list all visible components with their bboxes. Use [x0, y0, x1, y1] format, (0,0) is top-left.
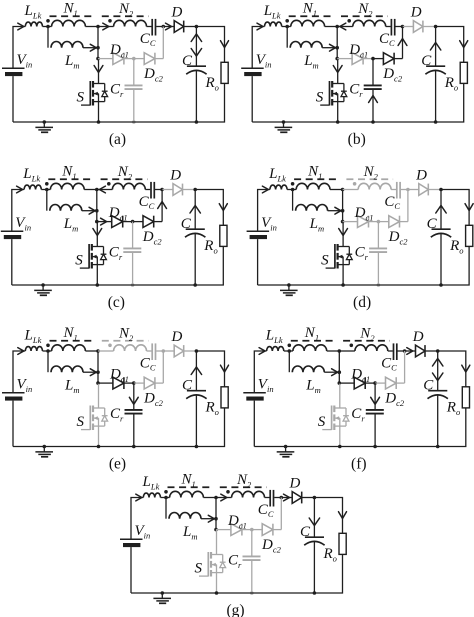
inductor Llk (e): [25, 347, 42, 351]
node B junction (f): [403, 349, 407, 353]
wire: node C to output capacitor C (e): [191, 351, 201, 391]
diode Dc2 (e): [144, 377, 155, 389]
capacitor CC (g): [270, 490, 273, 507]
svg-text:D: D: [410, 5, 422, 21]
capacitor C (polarized) (d): [431, 229, 451, 237]
ground rail (c): [12, 284, 195, 286]
transistor S (MOSFET with body diode) (c): [80, 244, 107, 269]
diode Dc1 (f): [354, 377, 365, 389]
svg-text:N1: N1: [181, 472, 196, 489]
diode Dc1 (e): [113, 377, 124, 389]
ground symbol (a): [35, 120, 53, 132]
wire: node C to output capacitor C (b): [430, 27, 440, 67]
winding N1 (c): [50, 183, 84, 189]
inductor Lm (d): [296, 205, 328, 211]
resistor Ro (a): [221, 62, 228, 83]
label Llk (e): [24, 328, 42, 345]
label C (f): [423, 378, 434, 394]
ground symbol (g): [153, 591, 171, 603]
wire: input top-left segment with current arrow (e): [13, 348, 25, 393]
svg-text:LLk: LLk: [142, 474, 160, 491]
inductor Llk (d): [270, 185, 287, 189]
label Cr (c): [109, 245, 123, 262]
wire: N1 to mid node (b): [325, 26, 338, 28]
label Dc2 (d): [388, 229, 409, 246]
transformer core dashed line over N2 (d): [346, 178, 393, 180]
capacitor CC (d): [397, 182, 400, 199]
svg-text:Lm: Lm: [182, 524, 197, 541]
winding N1 (d): [296, 183, 330, 189]
clamp mid junction (a): [132, 57, 136, 61]
wire: drain node to diode Dc1 (b): [337, 58, 352, 60]
diode Dc2 (f): [386, 377, 397, 389]
clamp mid junction (e): [132, 381, 136, 385]
winding N2 polarity dot (b): [347, 19, 351, 23]
svg-text:CC: CC: [139, 194, 155, 211]
wire: Ro to ground rail (e): [196, 408, 224, 447]
transformer core dashed line over N1 (g): [168, 486, 214, 488]
wire: drain column (d): [339, 222, 348, 247]
label CC (d): [384, 194, 400, 211]
wire: mid node to N2 (b): [337, 23, 353, 30]
wire: drain node to diode Dc1 (e): [98, 382, 113, 384]
node B junction (a): [162, 25, 166, 29]
transistor S (MOSFET with body diode) (e): [81, 406, 108, 431]
wire: node A down to Lm (a): [47, 27, 49, 48]
wire: node B to diode D (g): [281, 494, 292, 501]
svg-text:(f): (f): [351, 456, 367, 473]
winding N2 (a): [114, 20, 147, 26]
label Dc1 (b): [348, 42, 368, 59]
diode Dc2 (d): [389, 216, 400, 228]
battery Vin (e): [2, 393, 25, 401]
svg-text:Ro: Ro: [323, 546, 337, 563]
svg-text:Dc1: Dc1: [227, 513, 247, 530]
wire: Llk to node A (f): [284, 350, 293, 352]
diode Dc1 (a): [113, 53, 124, 65]
wire: diode D to node C (a): [184, 26, 197, 28]
wire: diode D to node C (c): [183, 189, 196, 191]
wire: Lm to mid node with arrow (c): [82, 207, 97, 214]
label N1 (e): [63, 325, 78, 342]
wire: node A down to Lm (d): [292, 190, 294, 211]
node C junction (e): [195, 349, 199, 353]
svg-text:N1: N1: [304, 325, 319, 342]
node B junction (c): [160, 188, 164, 192]
svg-text:D: D: [169, 168, 181, 184]
wire: N2 to capacitor CC (a): [147, 26, 152, 28]
transformer core dashed line over N1 (a): [50, 15, 96, 17]
wire: clamp mid node down to Cr (d): [377, 222, 379, 248]
wire: mid column top (c): [95, 188, 99, 224]
label Lm (e): [64, 377, 79, 394]
svg-text:Ro: Ro: [446, 400, 460, 417]
label Ro (g): [323, 546, 337, 563]
svg-text:D: D: [289, 476, 301, 492]
wire: node C to output capacitor C (a): [191, 27, 201, 67]
diode D (a): [174, 21, 184, 33]
diode Dc2 (b): [383, 53, 394, 65]
label Llk (b): [263, 3, 281, 20]
winding N1 polarity dot (c): [45, 182, 49, 186]
wire: Cr to ground rail (e): [132, 414, 136, 448]
wire: mid column top (d): [341, 188, 345, 224]
label Cr (f): [351, 406, 365, 423]
wire: clamp mid node down to Cr (c): [132, 222, 134, 248]
label Vin (c): [15, 215, 31, 232]
svg-text:LLk: LLk: [24, 328, 42, 345]
label S (e): [77, 414, 85, 430]
wire: node B to diode D (d): [408, 189, 419, 191]
svg-text:N2: N2: [117, 164, 133, 181]
subfigure label (g): [226, 602, 244, 617]
wire: drain node to diode Dc1 (d): [343, 221, 358, 223]
wire: Lm to mid node with arrow (b): [322, 44, 337, 51]
wire: drain column (g): [216, 530, 218, 555]
label Dc2 (a): [143, 66, 164, 83]
svg-text:Dc1: Dc1: [109, 367, 129, 384]
svg-text:S: S: [195, 561, 203, 577]
wire: clamp mid node to diode Dc2 (a): [134, 58, 144, 60]
wire: Ro to ground rail (f): [438, 408, 466, 447]
wire: diode D to node C (b): [423, 26, 436, 28]
diode Dc2 (g): [262, 524, 273, 536]
svg-text:Ro: Ro: [205, 75, 219, 92]
diode D (e): [174, 345, 184, 357]
label Lm (c): [63, 216, 78, 233]
svg-text:Dc1: Dc1: [354, 205, 374, 222]
diode D (f): [416, 345, 426, 357]
svg-text:CC: CC: [379, 31, 395, 48]
wire: mid node to N2 (f): [339, 350, 355, 352]
svg-text:N2: N2: [363, 164, 379, 181]
svg-text:Ro: Ro: [444, 75, 458, 92]
label Cr (d): [355, 245, 369, 262]
label C (g): [300, 524, 311, 540]
wire: source to ground rail (a): [97, 102, 101, 124]
label C (d): [427, 216, 438, 232]
svg-text:Vin: Vin: [135, 523, 151, 540]
label Dc1 (c): [108, 205, 128, 222]
svg-text:C: C: [423, 378, 434, 394]
label D (f): [412, 329, 424, 345]
wire: node C to top right corner (f): [438, 351, 470, 387]
node A junction (d): [291, 188, 295, 192]
subfigure label (c): [108, 294, 125, 311]
inductor Llk (a): [25, 22, 42, 26]
wire: Llk to node A (g): [161, 497, 170, 499]
wire: battery to ground rail (f): [253, 401, 255, 447]
svg-text:(c): (c): [108, 294, 125, 311]
inductor Lm (f): [292, 366, 324, 372]
capacitor Cr (f): [366, 410, 384, 414]
wire: N1 to mid node (e): [85, 350, 98, 352]
wire: clamp mid node down to Cr (a): [133, 59, 135, 85]
wire: N1 to mid node (a): [85, 26, 98, 28]
label N1 (d): [307, 164, 322, 181]
svg-text:Dc2: Dc2: [142, 229, 163, 246]
label N2 (e): [118, 326, 134, 343]
capacitor CC (c): [151, 182, 154, 199]
label S (c): [75, 253, 83, 269]
label N2 (a): [118, 1, 134, 18]
capacitor C (polarized) (f): [428, 391, 448, 399]
wire: N2 to capacitor CC (d): [391, 189, 396, 191]
label Ro (b): [444, 75, 458, 92]
clamp mid junction (b): [371, 57, 375, 61]
wire: node A down to Lm (b): [286, 27, 288, 48]
wire: Dc1 to clamp mid node (f): [365, 382, 375, 384]
svg-text:S: S: [75, 253, 83, 269]
wire: clamp mid node to diode Dc2 (e): [134, 382, 144, 384]
transformer core dashed line over N1 (f): [291, 340, 337, 342]
svg-text:Lm: Lm: [64, 53, 79, 70]
winding N2 polarity dot (d): [353, 182, 357, 186]
capacitor C (polarized) (a): [186, 66, 206, 74]
node B junction (d): [406, 188, 410, 192]
label N2 (b): [357, 1, 373, 18]
node C junction (b): [434, 25, 438, 29]
label N2 (d): [363, 164, 379, 181]
wire: battery to ground rail (g): [130, 547, 132, 593]
wire: node A down to Lm (g): [165, 498, 167, 519]
wire: Lm to mid node with arrow (f): [324, 369, 339, 376]
wire: mid node to N2 (c): [97, 186, 113, 193]
wire: capacitor C to ground rail (a): [195, 71, 199, 124]
transformer core dashed line over N1 (b): [289, 15, 335, 17]
svg-text:CC: CC: [258, 502, 274, 519]
svg-text:C: C: [182, 53, 193, 69]
clamp mid junction (d): [377, 220, 381, 224]
label C (c): [181, 216, 192, 232]
label CC (c): [139, 194, 155, 211]
ground symbol (b): [275, 120, 293, 132]
wire: Dc2 up to node B (f): [396, 351, 404, 383]
wire: capacitor C to ground rail (f): [436, 395, 440, 448]
label S (f): [318, 414, 326, 430]
label C (a): [182, 53, 193, 69]
ground symbol (f): [277, 445, 295, 457]
svg-text:Cr: Cr: [349, 82, 363, 99]
svg-text:LLk: LLk: [24, 3, 42, 20]
svg-text:Cr: Cr: [110, 406, 124, 423]
svg-text:N2: N2: [236, 472, 252, 489]
wire: clamp mid node to diode Dc2 (c): [133, 221, 143, 223]
ground rail (b): [252, 121, 435, 123]
subfigure label (b): [348, 131, 366, 148]
wire: source to ground rail (d): [341, 265, 345, 287]
inductor Lm (e): [51, 366, 83, 372]
wire: Llk to node A (b): [282, 26, 291, 28]
capacitor Cr (c): [123, 248, 141, 252]
capacitor Cr (a): [125, 85, 143, 89]
ground rail (e): [13, 446, 196, 448]
diode Dc1 (d): [358, 216, 369, 228]
wire: drain node to diode Dc1 (a): [98, 58, 113, 60]
wire: Dc2 up to node B (d): [400, 190, 408, 222]
label N2 (c): [117, 164, 133, 181]
svg-text:CC: CC: [140, 355, 156, 372]
wire: Llk to node A (c): [41, 189, 50, 191]
wire: node C to top right corner (a): [196, 27, 228, 63]
wire: source to ground rail (c): [96, 265, 100, 287]
label Cr (a): [110, 82, 124, 99]
label D (g): [289, 476, 301, 492]
svg-text:N1: N1: [61, 164, 76, 181]
label Vin (g): [135, 523, 151, 540]
winding N2 polarity dot (e): [108, 344, 112, 348]
wire: mid node to N2 (a): [98, 23, 114, 30]
label Ro (e): [205, 400, 219, 417]
label Llk (c): [22, 166, 40, 183]
capacitor CC (e): [152, 343, 155, 360]
svg-text:Vin: Vin: [261, 215, 277, 232]
label Dc2 (b): [382, 66, 403, 83]
inductor Llk (g): [143, 493, 160, 497]
label D (a): [171, 5, 183, 21]
label N1 (a): [63, 1, 78, 18]
wire: diode D to node C (f): [425, 350, 438, 352]
svg-text:CC: CC: [381, 355, 397, 372]
label S (b): [316, 90, 324, 106]
winding N1 (b): [291, 20, 325, 26]
node A junction (g): [164, 496, 168, 500]
node B junction (g): [280, 496, 284, 500]
transformer core dashed line over N2 (a): [102, 15, 149, 17]
resistor Ro (g): [339, 533, 346, 554]
wire: Cr to ground rail (a): [132, 90, 136, 124]
wire: battery to ground rail (a): [12, 76, 14, 122]
wire: Dc2 up to node B (a): [155, 27, 163, 59]
wire: node A down to Lm (e): [47, 351, 49, 372]
label Dc1 (g): [227, 513, 247, 530]
wire: node B to diode D (c): [162, 189, 173, 191]
wire: N2 to capacitor CC (f): [388, 350, 393, 352]
label D (d): [415, 168, 427, 184]
svg-text:CC: CC: [384, 194, 400, 211]
wire: Cr to ground rail (b): [369, 90, 378, 124]
svg-text:Lm: Lm: [305, 377, 320, 394]
transformer core dashed line over N2 (b): [341, 15, 388, 17]
capacitor Cr (d): [369, 248, 387, 252]
label Dc2 (e): [143, 391, 164, 408]
wire: Dc2 up to node B (b): [394, 27, 407, 59]
wire: source to ground rail (g): [215, 573, 219, 595]
capacitor CC (b): [391, 19, 394, 36]
wire: drain node to diode Dc1 (g): [216, 529, 231, 531]
svg-text:N2: N2: [357, 1, 373, 18]
label Ro (c): [203, 238, 217, 255]
winding N1 (f): [293, 345, 327, 351]
winding N1 polarity dot (f): [288, 344, 292, 348]
svg-text:Vin: Vin: [17, 52, 33, 69]
label Cr (b): [349, 82, 363, 99]
svg-text:Lm: Lm: [64, 377, 79, 394]
svg-text:LLk: LLk: [22, 166, 40, 183]
wire: clamp mid node to diode Dc2 (d): [378, 221, 388, 223]
wire: node C to output capacitor C (g): [309, 498, 319, 538]
svg-text:Cr: Cr: [355, 245, 369, 262]
transformer core dashed line over N2 (f): [343, 340, 390, 342]
battery Vin (g): [120, 539, 143, 547]
wire: CC to node B (b): [395, 26, 402, 28]
wire: node C to output capacitor C (c): [190, 190, 200, 230]
svg-text:N2: N2: [118, 326, 134, 343]
winding N1 polarity dot (a): [46, 19, 50, 23]
wire: source to ground rail (b): [336, 102, 340, 124]
label D (c): [169, 168, 181, 184]
svg-text:(a): (a): [109, 131, 126, 148]
ground symbol (d): [280, 283, 298, 295]
wire: Dc1 to clamp mid node (e): [124, 382, 134, 384]
label CC (g): [258, 502, 274, 519]
wire: clamp mid node down to Cr (f): [371, 383, 380, 409]
label CC (e): [140, 355, 156, 372]
svg-text:Lm: Lm: [309, 216, 324, 233]
svg-text:(g): (g): [226, 602, 244, 617]
svg-text:Lm: Lm: [63, 216, 78, 233]
wire: mid column top (g): [214, 496, 218, 532]
wire: capacitor C to ground rail (c): [193, 234, 197, 287]
wire: input top-left segment with current arrow (g): [131, 494, 143, 539]
label Llk (d): [268, 166, 286, 183]
label S (d): [321, 253, 329, 269]
svg-text:Vin: Vin: [258, 377, 274, 394]
capacitor CC (f): [394, 343, 397, 360]
transformer core dashed line over N1 (e): [50, 340, 96, 342]
svg-text:Dc2: Dc2: [143, 66, 164, 83]
label Llk (f): [265, 328, 283, 345]
ground rail (d): [258, 284, 441, 286]
label Dc2 (g): [261, 537, 282, 554]
node A junction (f): [288, 349, 292, 353]
node B junction (b): [401, 25, 405, 29]
winding N2 polarity dot (c): [107, 182, 111, 186]
node B junction (e): [162, 349, 166, 353]
wire: Ro to ground rail (g): [314, 554, 342, 593]
diode D (b): [413, 21, 423, 33]
node A junction (e): [46, 349, 50, 353]
winding N1 (a): [52, 20, 86, 26]
svg-text:LLk: LLk: [268, 166, 286, 183]
wire: Dc1 to clamp mid node (d): [369, 221, 379, 223]
svg-text:D: D: [412, 329, 424, 345]
label Vin (f): [258, 377, 274, 394]
wire: node C to top right corner (e): [196, 351, 228, 387]
label C (e): [182, 378, 193, 394]
diode Dc1 (c): [112, 216, 123, 228]
label Cr (e): [110, 406, 124, 423]
wire: node A down to Lm (f): [288, 351, 290, 372]
svg-text:Vin: Vin: [256, 52, 272, 69]
svg-text:Cr: Cr: [351, 406, 365, 423]
label N1 (g): [181, 472, 196, 489]
wire: Dc2 up to node B (e): [155, 351, 163, 383]
subfigure label (e): [109, 456, 126, 473]
resistor Ro (b): [460, 62, 467, 83]
wire: input top-left segment with current arrow (f): [254, 348, 266, 393]
label Lm (f): [305, 377, 320, 394]
label N2 (g): [236, 472, 252, 489]
wire: capacitor C to ground rail (b): [434, 71, 438, 124]
capacitor C (polarized) (c): [185, 229, 205, 237]
subfigure label (f): [351, 456, 367, 473]
ground rail (g): [131, 592, 314, 594]
wire: drain node to diode Dc1 (c): [97, 218, 112, 225]
transistor S (MOSFET with body diode) (f): [322, 406, 349, 431]
wire: Ro to ground rail (c): [195, 246, 223, 285]
svg-text:Vin: Vin: [15, 215, 31, 232]
